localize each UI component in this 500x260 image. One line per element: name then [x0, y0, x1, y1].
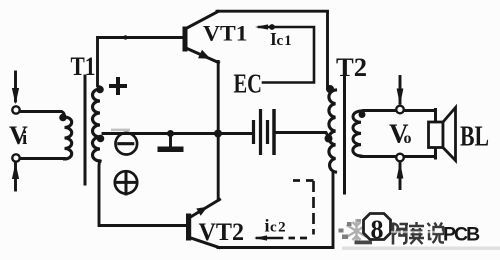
svg-text:i: i — [22, 128, 27, 149]
svg-text:o: o — [404, 130, 412, 147]
svg-text:T2: T2 — [336, 53, 367, 82]
svg-text:8: 8 — [371, 215, 384, 244]
svg-text:VT2: VT2 — [199, 219, 245, 246]
svg-text:EC: EC — [234, 69, 263, 99]
svg-text:BL: BL — [460, 122, 489, 153]
svg-text:i: i — [265, 216, 270, 236]
svg-text:T1: T1 — [71, 52, 96, 81]
svg-text:VT1: VT1 — [203, 21, 248, 46]
svg-text:c2: c2 — [270, 220, 287, 236]
svg-text:c1: c1 — [277, 33, 293, 49]
svg-text:PCB: PCB — [443, 224, 480, 246]
